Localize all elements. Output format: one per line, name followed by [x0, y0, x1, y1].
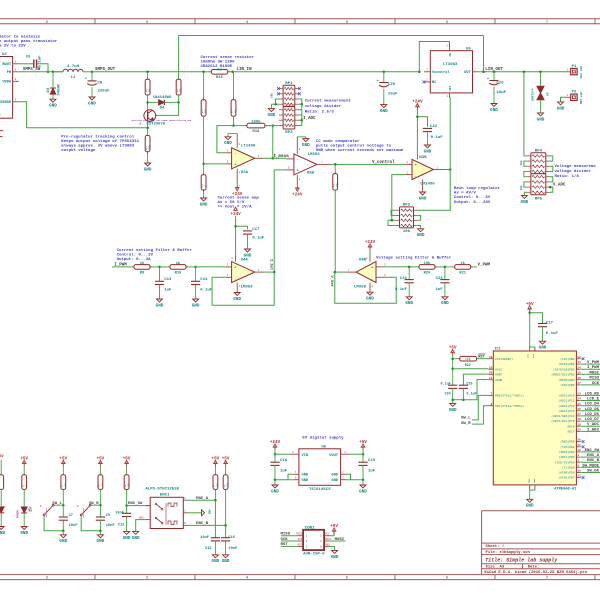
svg-text:+5V: +5V: [526, 302, 534, 307]
resistor R9: [134, 261, 160, 276]
capacitor C27 0.1uF: [538, 321, 559, 341]
svg-text:C27: C27: [546, 321, 554, 325]
svg-text:RST: RST: [298, 543, 303, 546]
comparator U5B LM393: [294, 153, 320, 175]
svg-text:12: 12: [577, 356, 581, 359]
junction V_ADC: [549, 186, 552, 189]
resistor R11: [201, 164, 207, 198]
svg-text:5V: 5V: [0, 455, 4, 459]
svg-text:1k: 1k: [140, 261, 145, 266]
ground below U3B: [419, 192, 427, 201]
svg-text:31: 31: [577, 444, 581, 447]
ground SW2: [132, 531, 140, 540]
svg-text:AREF: AREF: [495, 373, 502, 376]
svg-text:+24V: +24V: [292, 192, 303, 197]
svg-text:KST2907A: KST2907A: [147, 122, 166, 126]
wire R5 to SW_R node: [99, 489, 102, 506]
wire U4B output to V_set: [334, 271, 346, 274]
resistor network RP2: [395, 204, 417, 234]
svg-text:GND: GND: [419, 196, 427, 201]
svg-text:Pre-regulator tracking control: Pre-regulator tracking control: [61, 135, 134, 140]
svg-text:P2: P2: [572, 91, 577, 95]
svg-text:C6: C6: [26, 56, 31, 60]
comment current setting filter: [117, 248, 193, 262]
pin IC1.31 (TXD)PD1: [560, 444, 584, 449]
wire R8 to ENC_B: [224, 489, 227, 526]
svg-text:V_Set: V_Set: [329, 276, 333, 287]
svg-text:6: 6: [446, 21, 448, 25]
resistor R6 column +5V ENC_SW: [123, 456, 131, 489]
wire LIN_OUT rail: [478, 71, 567, 73]
wire SW_R to PB7: [472, 406, 488, 424]
svg-text:ADC7: ADC7: [567, 431, 574, 434]
svg-text:1: 1: [344, 451, 346, 454]
svg-text:6: 6: [288, 156, 290, 159]
connector P2 OUT_MINUS: [567, 91, 582, 105]
svg-text:LCD_D7: LCD_D7: [585, 418, 600, 422]
mounting note purple: [132, 119, 192, 122]
svg-text:18: 18: [489, 366, 493, 369]
svg-text:GND: GND: [417, 233, 425, 238]
pin U5B output: [317, 161, 331, 164]
svg-text:MISO: MISO: [589, 377, 599, 381]
ground right of U5: [359, 480, 367, 495]
svg-text:C13: C13: [164, 278, 172, 282]
svg-text:5V digital supply: 5V digital supply: [302, 435, 344, 440]
svg-text:U5B: U5B: [307, 171, 315, 175]
pins U5 GND right: [341, 471, 346, 480]
label MOSI: [335, 538, 345, 542]
svg-text:ALPS-STEC12E08: ALPS-STEC12E08: [145, 487, 179, 491]
resistor R2 column with +5V: [20, 456, 28, 489]
svg-text:AGND: AGND: [495, 379, 502, 382]
svg-text:2: 2: [46, 577, 48, 581]
svg-text:21: 21: [489, 377, 493, 380]
pin IC1.24 (ADC1)PC1: [558, 398, 600, 403]
svg-text:IC1: IC1: [494, 348, 500, 352]
ground at CON1: [331, 550, 339, 559]
wire SMPS_OUT rail: [92, 71, 206, 73]
svg-text:R100: R100: [217, 69, 223, 72]
wire R7 to ENC_A: [214, 489, 217, 501]
svg-text:A: A: [184, 497, 186, 500]
svg-text:1: 1: [437, 166, 439, 169]
svg-text:9: 9: [15, 78, 17, 81]
wire ENC A: [188, 499, 216, 501]
junction U3A plus node: [202, 163, 205, 166]
pin IC1.7 PB6(XTAL1/TOSC1): [488, 393, 524, 398]
svg-text:C23: C23: [435, 277, 443, 281]
svg-text:3: 3: [146, 21, 148, 25]
svg-text:100k: 100k: [251, 119, 261, 124]
svg-text:GND: GND: [200, 202, 208, 207]
svg-text:VCC: VCC: [527, 353, 530, 358]
svg-text:5: 5: [384, 264, 386, 267]
capacitor C21 0.1uF: [395, 267, 414, 297]
svg-text:26: 26: [577, 408, 581, 411]
power +24V above U4B: [365, 240, 376, 250]
pin U3A minus: [226, 150, 232, 153]
wire RP1 left rows 3-4 to GND: [271, 99, 279, 109]
U3A power pin bottom +24V: [237, 169, 240, 185]
capacitor C24 0.1uF: [441, 382, 464, 403]
pin IC1.14 (SS/OC1B)PB2: [553, 366, 600, 371]
pin U6.2 OUT: [473, 69, 478, 72]
label ENC_SW1: [128, 502, 143, 506]
svg-text:4: 4: [246, 577, 249, 581]
svg-text:C21: C21: [400, 277, 408, 281]
diode D3 schottky: [47, 72, 62, 99]
svg-text:16: 16: [577, 377, 581, 380]
wire AGND down to caps: [463, 380, 488, 400]
svg-text:(INT0)PD2: (INT0)PD2: [558, 450, 574, 454]
wire VOUT to +5V: [350, 450, 365, 455]
svg-text:SCK: SCK: [298, 538, 303, 541]
no-connect X marks RP1: [277, 87, 301, 95]
svg-text:10nF: 10nF: [200, 536, 209, 540]
wire U4B plus to filter: [384, 266, 420, 268]
svg-text:LM393: LM393: [308, 153, 321, 157]
svg-text:Date:: Date:: [528, 566, 540, 570]
svg-text:ENC_SW: ENC_SW: [585, 449, 600, 453]
ground RP2: [417, 229, 425, 238]
svg-text:U2: U2: [2, 53, 7, 57]
frame border bottom lines: [0, 575, 600, 580]
junction C21: [408, 266, 411, 269]
resistor R17: [231, 72, 237, 116]
svg-text:LCD_D4: LCD_D4: [585, 403, 600, 407]
svg-text:R10: R10: [175, 271, 182, 275]
svg-text:10k: 10k: [519, 160, 523, 165]
svg-text:B3F-10XX: B3F-10XX: [45, 507, 48, 517]
svg-text:+: +: [85, 77, 87, 81]
power +5V RST pullup: [449, 346, 457, 356]
svg-text:R9: R9: [140, 271, 144, 275]
capacitor C13 1uF: [155, 267, 172, 299]
svg-text:(RXD)PD0: (RXD)PD0: [560, 440, 575, 444]
pins CON1 row 5/6: [298, 545, 330, 548]
pin IC1.11 (AIN1)PD7: [558, 475, 584, 480]
svg-text:PC6(RESET): PC6(RESET): [495, 357, 513, 361]
svg-text:8: 8: [231, 257, 233, 260]
svg-text:27: 27: [577, 413, 581, 416]
ground below D3: [49, 99, 57, 108]
junction: [47, 71, 50, 74]
ground below C14: [192, 299, 200, 308]
pin U4B plus right: [376, 264, 386, 267]
comment current sense amp: [218, 196, 260, 209]
pin IC1.10 (AIN0)PD6: [558, 470, 600, 475]
svg-text:R20: R20: [424, 271, 431, 275]
svg-text:0.1uF: 0.1uF: [200, 288, 213, 292]
svg-text:AVCC: AVCC: [495, 368, 502, 371]
IC1 GND pins bottom: [530, 485, 535, 499]
svg-text:LM358: LM358: [241, 286, 254, 290]
svg-text:30: 30: [577, 439, 581, 442]
svg-text:(AIN1)PD7: (AIN1)PD7: [558, 476, 574, 480]
svg-text:2: 2: [406, 171, 408, 174]
wire I_set vertical: [273, 170, 275, 272]
pin IC1.8 PB7(XTAL2/TOSC2): [488, 403, 524, 408]
svg-text:10k: 10k: [403, 229, 411, 234]
pin names CON1 left: [296, 533, 303, 547]
comment voltage measurement divider: [555, 164, 597, 179]
svg-text:19: 19: [577, 423, 581, 426]
svg-text:PB7(XTAL2/TOSC2): PB7(XTAL2/TOSC2): [495, 404, 524, 408]
svg-text:U3B: U3B: [419, 156, 427, 160]
svg-text:ATMEGA8-AI: ATMEGA8-AI: [554, 487, 576, 491]
svg-text:LM358: LM358: [354, 286, 367, 290]
svg-text:GND: GND: [271, 489, 279, 494]
svg-text:(ADC2)PC2: (ADC2)PC2: [558, 404, 574, 408]
svg-text:6: 6: [384, 274, 386, 277]
ground below C8: [88, 97, 96, 106]
svg-text:(T1)PD5: (T1)PD5: [562, 465, 575, 469]
svg-text:C26: C26: [496, 82, 504, 86]
ground below R11: [200, 198, 208, 207]
resistor R15 current sense: [206, 69, 233, 80]
svg-text:OUT_POS: OUT_POS: [579, 66, 582, 79]
svg-text:V_PWM: V_PWM: [478, 264, 491, 268]
svg-text:5: 5: [15, 99, 17, 102]
capacitor C7 10nF: [59, 505, 78, 531]
wire V_control: [331, 163, 405, 165]
svg-text:C20: C20: [388, 83, 396, 87]
power +5V above IC1: [526, 302, 534, 312]
ground below D2: [20, 527, 28, 536]
svg-text:Vcontrol: Vcontrol: [432, 70, 450, 75]
label LIN_IN: [237, 68, 253, 72]
svg-text:+: +: [297, 170, 299, 174]
svg-text:voltage divider: voltage divider: [305, 104, 342, 109]
ground below C22: [424, 145, 432, 154]
svg-text:SENSE: SENSE: [0, 101, 12, 105]
wire U3B out to RP2 feedback: [418, 170, 451, 211]
svg-text:10nF: 10nF: [69, 524, 78, 528]
wire R2 to LED: [23, 489, 25, 506]
pin IC1.21 AGND: [488, 377, 502, 382]
ground below SW_R: [97, 531, 105, 545]
comment pre-regulator note (cropped): [0, 35, 58, 49]
pin IC1.1 (INT1)PD3: [558, 454, 600, 459]
pin U4A power bottom: [237, 283, 240, 293]
junction C8: [91, 71, 94, 74]
ground below C23: [441, 297, 449, 306]
wire RP2 right bracket rows2-3: [418, 215, 421, 220]
resistor R7 pullup +5V: [212, 456, 220, 489]
svg-text:B: B: [40, 505, 42, 508]
junction C26: [493, 71, 496, 74]
resistor R21: [445, 261, 477, 276]
svg-text:220uF: 220uF: [98, 89, 111, 93]
svg-text:-: -: [415, 175, 417, 179]
junction C13: [158, 266, 161, 269]
svg-text:GND: GND: [88, 101, 96, 106]
svg-text:D5: D5: [547, 92, 550, 96]
svg-text:+5V: +5V: [59, 456, 67, 461]
svg-text:LCD_E: LCD_E: [587, 398, 600, 402]
wire U3B minus to RP2: [392, 175, 405, 221]
svg-text:SCK: SCK: [592, 382, 600, 386]
wire R16 down: [203, 116, 205, 164]
pin IC1.13 (OC1A)PB1: [558, 361, 600, 366]
wire down to RP4: [524, 72, 527, 156]
svg-text:3: 3: [342, 477, 344, 480]
wire ENC_A down to C15 (crossover ENC_B): [214, 500, 216, 538]
svg-text:R21: R21: [459, 271, 466, 275]
wire RP2 row4 to GND: [418, 226, 421, 229]
svg-text:7: 7: [295, 471, 297, 474]
capacitor C9 10nF: [96, 505, 115, 531]
svg-text:P1: P1: [572, 65, 577, 69]
label SMPS_OUT: [95, 68, 116, 72]
svg-text:7: 7: [546, 21, 548, 25]
svg-text:6: 6: [295, 477, 297, 480]
svg-text:5: 5: [346, 577, 348, 581]
svg-text:10k: 10k: [519, 185, 523, 190]
svg-text:always approx. 2V above LT3083: always approx. 2V above LT3083: [61, 144, 134, 149]
wire RP right chain: [299, 99, 303, 125]
comment pre-regulator tracking control: [61, 135, 139, 154]
wire +24V to U3B and C22: [416, 110, 427, 160]
capacitor C12 10nF: [115, 506, 131, 532]
svg-text:VCC: VCC: [325, 533, 330, 536]
wire R18 to RP3: [265, 125, 279, 127]
svg-text:Ratio: 2.5/3: Ratio: 2.5/3: [305, 110, 335, 115]
svg-text:GND: GND: [537, 117, 545, 122]
pin U4A power top: [231, 255, 235, 262]
U3A power pin to GND: [228, 134, 241, 148]
svg-text:20: 20: [489, 371, 493, 374]
svg-text:SW_OK: SW_OK: [587, 470, 600, 474]
svg-text:CON1: CON1: [305, 527, 315, 531]
resistor R22 RST pullup: [453, 356, 478, 367]
svg-text:1k: 1k: [176, 261, 181, 266]
svg-text:GND when current exceeds set m: GND when current exceeds set maximum: [316, 148, 404, 153]
svg-text:1: 1: [258, 269, 260, 272]
capacitor C18 1uF: [270, 454, 287, 480]
wire P2 to GND: [561, 97, 567, 102]
pin ENC1 B: [183, 522, 187, 525]
inductor L1 4.7uH: [53, 65, 92, 80]
svg-text:GND: GND: [539, 346, 547, 351]
label I_PWM: [114, 264, 127, 268]
pin U2.8 PH: [13, 69, 19, 72]
svg-text:Main loop regulator: Main loop regulator: [454, 186, 501, 191]
pin IC1.22 ADC7: [567, 428, 600, 433]
svg-text:C8: C8: [98, 81, 103, 85]
svg-text:2: 2: [342, 471, 344, 474]
svg-text:29: 29: [489, 356, 493, 359]
svg-text:2: 2: [147, 520, 149, 523]
svg-text:+5V: +5V: [359, 440, 367, 445]
svg-text:(ADC0)PC0: (ADC0)PC0: [558, 394, 574, 398]
svg-text:GND: GND: [302, 479, 309, 483]
U5B power pin to GND: [297, 137, 306, 154]
svg-text:MOSI: MOSI: [325, 538, 332, 541]
IC U6 LT3083: [430, 47, 472, 93]
resistor R14: [176, 79, 182, 95]
comment CC mode comparator: [316, 139, 404, 153]
pin ENC1 A: [183, 497, 187, 500]
wire to U4A plus: [196, 266, 226, 268]
junction C20: [383, 71, 386, 74]
svg-text:7: 7: [348, 269, 350, 272]
pin IC1.18 AVCC: [488, 366, 502, 371]
comment voltage setting filter: [376, 255, 452, 260]
pin U4A minus: [226, 274, 232, 277]
svg-text:(TXD)PD1: (TXD)PD1: [560, 445, 575, 449]
comment main loop regulator: [454, 186, 501, 205]
svg-text:GND: GND: [366, 297, 374, 302]
transistor Q1 KST2907A PNP: [144, 110, 156, 122]
svg-text:100k: 100k: [148, 144, 151, 150]
label SW_L to PB6: [461, 417, 471, 421]
svg-text:4: 4: [446, 95, 448, 98]
svg-text:m 2V to 22V: m 2V to 22V: [0, 45, 26, 49]
pin U4B power top: [366, 255, 370, 261]
wire PH rail SMPS_SW: [19, 71, 63, 73]
pin U2.5 SENSE: [13, 99, 19, 102]
svg-text:0.1uF: 0.1uF: [546, 332, 559, 336]
frame column numbers: [46, 21, 548, 581]
svg-text:(XCK/T0)PD4: (XCK/T0)PD4: [555, 460, 575, 464]
svg-text:VDDA: VDDA: [2, 81, 12, 85]
svg-text:GND: GND: [528, 479, 531, 484]
switch SW_L: [40, 504, 63, 530]
svg-text:*1: *1: [139, 121, 143, 125]
resistor R19 pullup of V_set: [332, 164, 338, 190]
pin U4B output left: [346, 269, 356, 272]
svg-text:GND: GND: [97, 539, 105, 544]
pin IC1.20 AREF: [488, 371, 502, 376]
svg-text:23: 23: [577, 393, 581, 396]
wire U4B feedback loop: [335, 272, 396, 303]
pin U4A plus: [226, 264, 232, 267]
pin IC1.19 ADC6: [567, 423, 600, 428]
wire I_PWM: [112, 266, 134, 268]
power +24V below U5B: [292, 185, 303, 197]
svg-text:8: 8: [292, 451, 294, 454]
wire CON1 VCC to +5V: [330, 532, 334, 536]
svg-text:10k: 10k: [270, 93, 274, 98]
wire +24V to VIN: [274, 450, 290, 455]
svg-text:GND: GND: [123, 536, 131, 541]
svg-text:(MISO)PB4: (MISO)PB4: [558, 378, 574, 382]
svg-text:GND: GND: [521, 200, 529, 205]
switch SW_R: [77, 504, 100, 530]
junction D5: [539, 71, 542, 74]
ground U3A top: [224, 134, 232, 147]
svg-text:C12: C12: [118, 523, 125, 527]
op-amp U4A LM358: [232, 258, 255, 289]
wire from top rail down to R14 (crossover): [178, 36, 180, 80]
svg-text:0.1uF: 0.1uF: [466, 392, 476, 396]
svg-text:7: 7: [546, 577, 548, 581]
svg-text:OUT_GND: OUT_GND: [579, 92, 582, 105]
wire +24V to U4B: [369, 250, 371, 255]
pins U5 GND left: [294, 471, 299, 480]
wire +5V rail to AVCC and C24: [451, 356, 488, 386]
svg-text:I_ADC: I_ADC: [587, 428, 600, 432]
wire encoder SW2 to GND: [136, 517, 146, 532]
wire RP5 row8 to GND: [524, 192, 526, 195]
svg-text:13: 13: [577, 361, 581, 364]
wire R13 to Q1: [147, 95, 149, 111]
svg-text:SMPS_SW: SMPS_SW: [23, 68, 41, 72]
svg-text:VOUT: VOUT: [329, 454, 339, 458]
svg-text:25: 25: [577, 403, 581, 406]
